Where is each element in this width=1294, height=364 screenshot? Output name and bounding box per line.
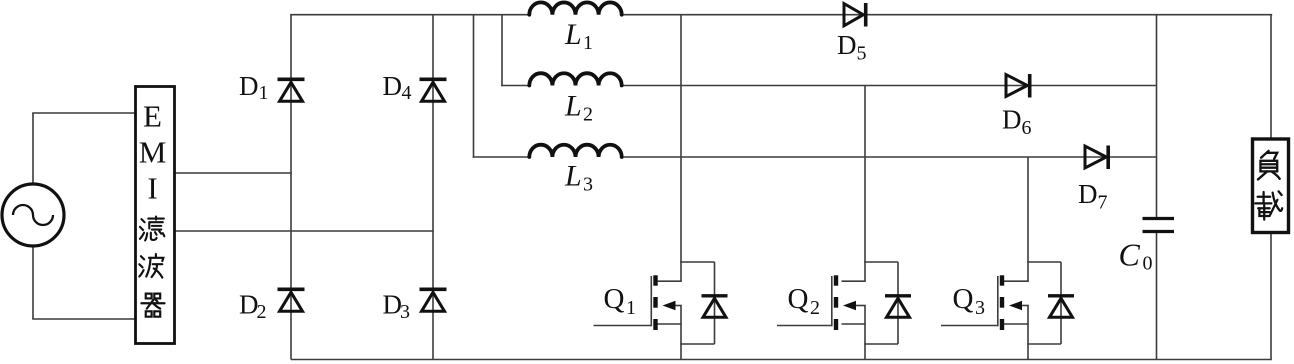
svg-text:2: 2: [810, 297, 820, 319]
svg-text:I: I: [147, 171, 157, 206]
svg-text:D: D: [239, 71, 259, 101]
svg-text:D: D: [1002, 105, 1022, 135]
svg-text:1: 1: [259, 82, 269, 104]
svg-text:3: 3: [583, 174, 593, 196]
svg-text:2: 2: [257, 301, 267, 323]
svg-text:Q: Q: [788, 283, 809, 315]
svg-text:C: C: [1119, 237, 1141, 273]
svg-text:L: L: [564, 160, 582, 193]
svg-text:5: 5: [857, 43, 867, 65]
svg-text:L: L: [564, 90, 582, 123]
svg-text:3: 3: [975, 297, 985, 319]
svg-text:D: D: [1078, 179, 1098, 209]
svg-text:Q: Q: [953, 283, 974, 315]
svg-text:1: 1: [583, 32, 593, 54]
svg-text:Q: Q: [604, 283, 625, 315]
svg-text:L: L: [564, 18, 582, 51]
svg-text:6: 6: [1022, 117, 1032, 139]
svg-text:7: 7: [1098, 192, 1108, 214]
svg-text:4: 4: [402, 82, 412, 104]
svg-text:E: E: [143, 99, 162, 134]
svg-text:D: D: [383, 71, 403, 101]
svg-text:D: D: [837, 30, 857, 60]
svg-text:M: M: [139, 135, 167, 170]
svg-text:0: 0: [1143, 253, 1153, 275]
svg-text:2: 2: [583, 104, 593, 126]
svg-text:1: 1: [626, 297, 636, 319]
svg-text:3: 3: [400, 301, 410, 323]
